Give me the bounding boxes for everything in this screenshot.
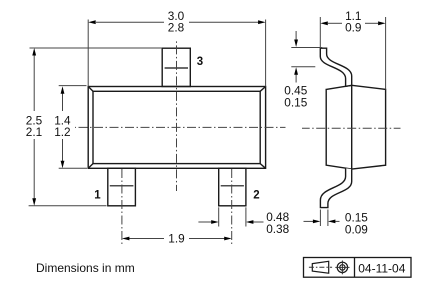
- dimension 2.5/2.1 overall height: [29, 48, 162, 206]
- svg-text:04-11-04: 04-11-04: [358, 261, 405, 275]
- svg-text:0.15: 0.15: [284, 95, 307, 109]
- svg-text:1.2: 1.2: [54, 125, 70, 139]
- svg-text:2.1: 2.1: [26, 125, 42, 139]
- dimension 0.15/0.09 lead thickness: [304, 210, 340, 227]
- svg-text:0.09: 0.09: [345, 222, 368, 236]
- side view body: [326, 85, 385, 169]
- dimension 0.48/0.38 pin width: [198, 207, 263, 226]
- projection symbol cone: [312, 261, 328, 273]
- centerline vertical through pin 2: [231, 169, 233, 246]
- pin 3 crossline: [165, 67, 188, 69]
- dimension 1.1/0.9 side width: [320, 17, 385, 89]
- package body outline (top view): [88, 87, 265, 169]
- pin 3 tab (top view): [162, 48, 190, 86]
- dimension 3.0/2.8 body width: [88, 20, 265, 87]
- pin 2 (top view): [219, 168, 246, 206]
- centerline vertical through pin 1: [121, 169, 123, 246]
- svg-text:1: 1: [94, 189, 101, 201]
- svg-text:2: 2: [253, 190, 259, 202]
- dimension 1.9 pin pitch: [128, 238, 226, 240]
- side view top lead (pin 3): [320, 48, 351, 86]
- dimension 0.45/0.15 lead tip height: [291, 31, 322, 83]
- svg-text:0.9: 0.9: [345, 20, 361, 34]
- svg-text:3: 3: [197, 56, 203, 68]
- centerline vertical through pin 3 and body: [176, 40, 178, 191]
- pin 1 crossline: [110, 185, 134, 187]
- side view bottom lead (pin 1): [320, 168, 351, 207]
- pin 1 (top view): [108, 168, 136, 206]
- dimension 1.4/1.2 body height: [59, 86, 87, 169]
- svg-text:1.9: 1.9: [168, 231, 184, 245]
- projection symbol circles: [337, 262, 347, 272]
- svg-text:0.38: 0.38: [266, 222, 289, 236]
- centerline horizontal through body: [75, 126, 286, 128]
- svg-text:2.8: 2.8: [168, 20, 185, 34]
- revision box: [304, 258, 412, 278]
- side view centerline: [302, 127, 401, 129]
- svg-text:Dimensions in mm: Dimensions in mm: [36, 261, 135, 275]
- pin 2 crossline: [221, 185, 244, 187]
